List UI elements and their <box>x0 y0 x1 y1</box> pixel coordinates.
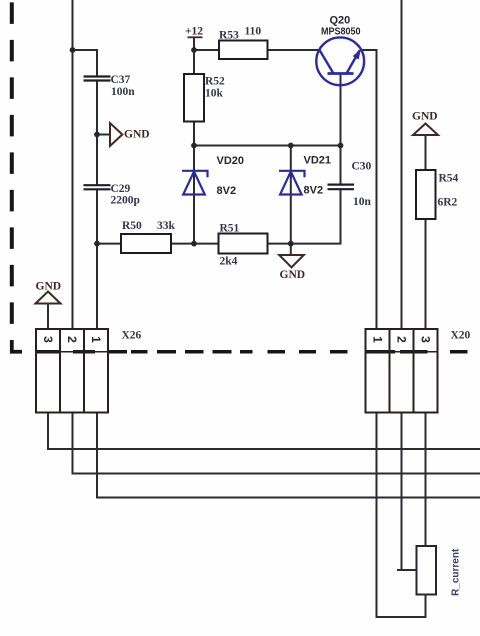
zener diode VD20 <box>182 171 208 195</box>
svg-text:+12: +12 <box>185 26 203 38</box>
ground GND D (down, below R51 right node) <box>279 255 304 267</box>
wire node to R52 top <box>193 50 195 74</box>
svg-text:8V2: 8V2 <box>217 185 237 197</box>
wire C29 bottom down to X26 pin 1 <box>96 189 98 329</box>
resistor R53 <box>219 41 268 60</box>
wire stub to GND D <box>290 244 292 255</box>
wire X20 pin2 bottom to R_current tap <box>401 413 403 571</box>
svg-text:MPS8050: MPS8050 <box>321 26 361 38</box>
svg-text:110: 110 <box>245 26 262 38</box>
svg-text:X26: X26 <box>122 330 142 342</box>
wire X20 pin1 bottom loop to R_current bottom <box>377 413 426 618</box>
svg-text:10n: 10n <box>353 196 372 208</box>
wire R53 to Q20 <box>268 49 321 51</box>
dashed border horizontal <box>36 350 468 354</box>
wire R51 right to C30 bottom corner <box>268 189 341 243</box>
capacitor C37 <box>84 77 111 81</box>
svg-text:VD21: VD21 <box>304 155 332 167</box>
wire junction to R50 <box>97 243 121 245</box>
svg-text:2: 2 <box>65 336 79 343</box>
svg-text:100n: 100n <box>111 86 135 98</box>
ground GND A (right pointing) <box>110 123 122 146</box>
wire VD21 vertical <box>290 146 292 244</box>
svg-text:33k: 33k <box>157 220 176 232</box>
capacitor C29 <box>84 185 111 189</box>
resistor R50 <box>121 234 171 253</box>
svg-text:X20: X20 <box>451 330 471 342</box>
resistor R_current <box>417 546 437 595</box>
svg-text:2: 2 <box>394 336 408 343</box>
svg-text:8V2: 8V2 <box>304 185 324 197</box>
svg-text:R52: R52 <box>205 76 225 88</box>
wire horizontal mid row VD20-VD21-C30 <box>194 145 341 147</box>
svg-text:C29: C29 <box>111 183 131 195</box>
dashed border corner <box>12 340 22 352</box>
wire X26 pin2 bottom to right edge <box>73 413 480 474</box>
svg-text:2k4: 2k4 <box>220 256 238 268</box>
wire top-left vertical into X26 pin 2 <box>72 0 74 329</box>
zener diode VD21 <box>279 171 305 195</box>
wire Q20 base down to C30 top <box>340 74 342 185</box>
wire stub to GND A <box>97 134 110 136</box>
svg-text:GND: GND <box>36 281 62 293</box>
wire R54 bottom to X20 pin 3 <box>425 219 427 329</box>
resistor R52 <box>184 74 204 122</box>
svg-text:VD20: VD20 <box>217 155 245 167</box>
svg-text:C37: C37 <box>111 74 131 86</box>
ground GND B (up, above R54) <box>413 124 438 136</box>
svg-text:6R2: 6R2 <box>438 197 458 209</box>
wire X26 pin3 bottom to right edge <box>48 413 480 450</box>
svg-text:10k: 10k <box>205 88 224 100</box>
svg-text:GND: GND <box>124 129 150 141</box>
wire GND B to R54 top <box>425 135 427 170</box>
svg-text:R_current: R_current <box>451 548 462 596</box>
svg-text:1: 1 <box>370 336 384 343</box>
svg-text:3: 3 <box>418 336 432 343</box>
svg-text:R53: R53 <box>219 30 239 42</box>
svg-text:GND: GND <box>412 111 438 123</box>
resistor R51 <box>219 234 268 254</box>
transistor Q20 <box>316 37 364 85</box>
wire C37 bottom to C29 top <box>96 81 98 186</box>
ground GND C (up, above X26 pin3) <box>36 292 61 304</box>
svg-text:R50: R50 <box>122 220 142 232</box>
wire GND C stub to X26 pin 3 <box>47 304 49 330</box>
dashed border vertical <box>10 2 14 339</box>
wire R52 bottom through VD20 to bottom row <box>193 122 195 244</box>
wire branch to C37 <box>73 50 98 77</box>
node junction dots <box>70 47 344 246</box>
svg-text:1: 1 <box>89 336 103 343</box>
wire X20 pin3 bottom to R_current top <box>425 413 427 547</box>
wire Q20 emitter to X20 pin 1 <box>361 50 377 329</box>
connector X26 <box>36 329 108 413</box>
wire R50 to R51 <box>171 243 219 245</box>
svg-text:R51: R51 <box>220 223 240 235</box>
connector X20 <box>366 329 438 413</box>
resistor R54 <box>416 170 436 219</box>
svg-text:C30: C30 <box>352 161 372 173</box>
wire +12 stub <box>193 38 195 51</box>
capacitor C30 <box>328 185 355 190</box>
wire R_current tap stub <box>397 569 417 571</box>
svg-text:2200p: 2200p <box>111 195 140 207</box>
svg-text:3: 3 <box>41 336 55 343</box>
wire +12 node to R53 <box>194 49 219 51</box>
svg-text:GND: GND <box>280 269 306 281</box>
wire top-right vertical into X20 pin 2 <box>401 0 403 329</box>
svg-text:R54: R54 <box>439 173 459 185</box>
wire X26 pin1 bottom to right edge <box>97 413 480 498</box>
